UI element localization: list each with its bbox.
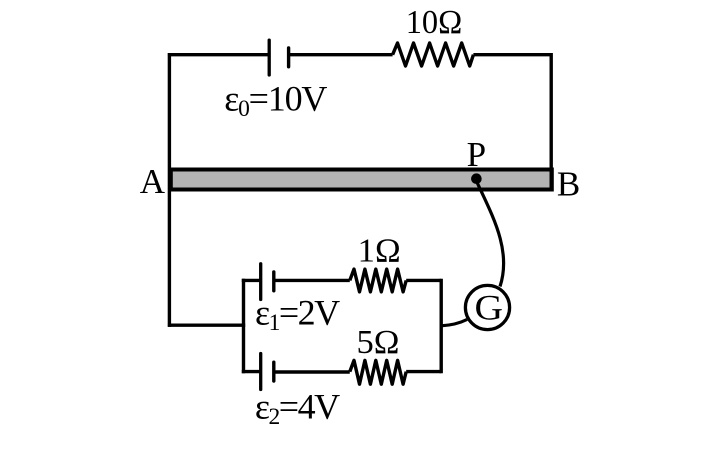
svg-text:ε2=4V: ε2=4V [255,386,340,430]
svg-text:P: P [467,135,486,174]
svg-text:5Ω: 5Ω [357,324,400,361]
svg-text:1Ω: 1Ω [358,233,401,270]
svg-text:10Ω: 10Ω [406,4,463,41]
svg-text:B: B [557,164,580,203]
svg-text:ε1=2V: ε1=2V [255,293,340,337]
svg-text:A: A [140,162,166,201]
svg-text:G: G [475,287,504,327]
svg-text:ε0=10V: ε0=10V [224,78,327,122]
